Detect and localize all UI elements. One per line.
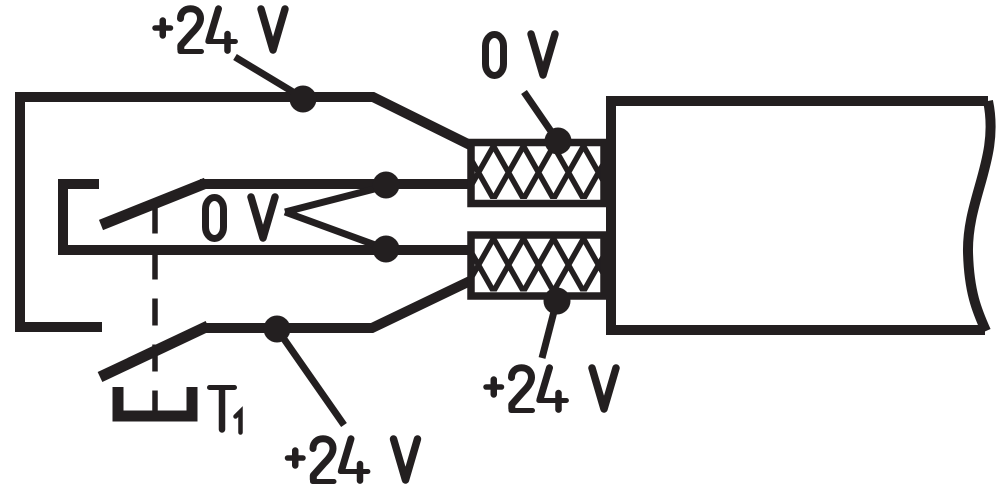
leader line bottom-right +24V	[542, 300, 557, 358]
junction dot lower +24V wire	[264, 316, 291, 343]
upper 0V wire	[200, 179, 470, 189]
leader line top +24V	[235, 57, 303, 98]
junction dot on upper ferrule	[545, 128, 572, 155]
lower +24V wire	[204, 281, 470, 328]
label +24 V (top)	[155, 9, 285, 52]
cable body (right) with break edge	[611, 101, 991, 331]
junction dot lower 0V wire	[373, 236, 400, 263]
internal bracket contact + lower 0V wire	[63, 184, 470, 250]
label +24 V (bottom middle)	[288, 439, 418, 482]
label 0 V (top)	[486, 34, 556, 76]
junction dot on lower ferrule	[544, 288, 571, 315]
dashed actuator link T1	[152, 207, 158, 416]
label T1	[210, 388, 241, 433]
leader lines inner 0V arrow	[285, 186, 386, 249]
label +24 V (bottom right)	[486, 368, 616, 411]
junction dot upper 0V wire	[373, 172, 400, 199]
label 0 V (inner)	[206, 197, 276, 239]
leader line bottom-middle +24V	[277, 329, 344, 425]
shield ferrule upper (hatched)	[471, 143, 604, 204]
lower switch blade	[100, 326, 208, 377]
shield ferrule lower (hatched)	[471, 235, 604, 296]
leader line top 0V	[524, 92, 557, 140]
T1 actuator bracket	[118, 387, 192, 416]
device outline (left enclosure) with top +24V wire	[20, 97, 470, 327]
junction dot on top +24V wire	[290, 86, 317, 113]
upper switch blade	[101, 183, 206, 225]
